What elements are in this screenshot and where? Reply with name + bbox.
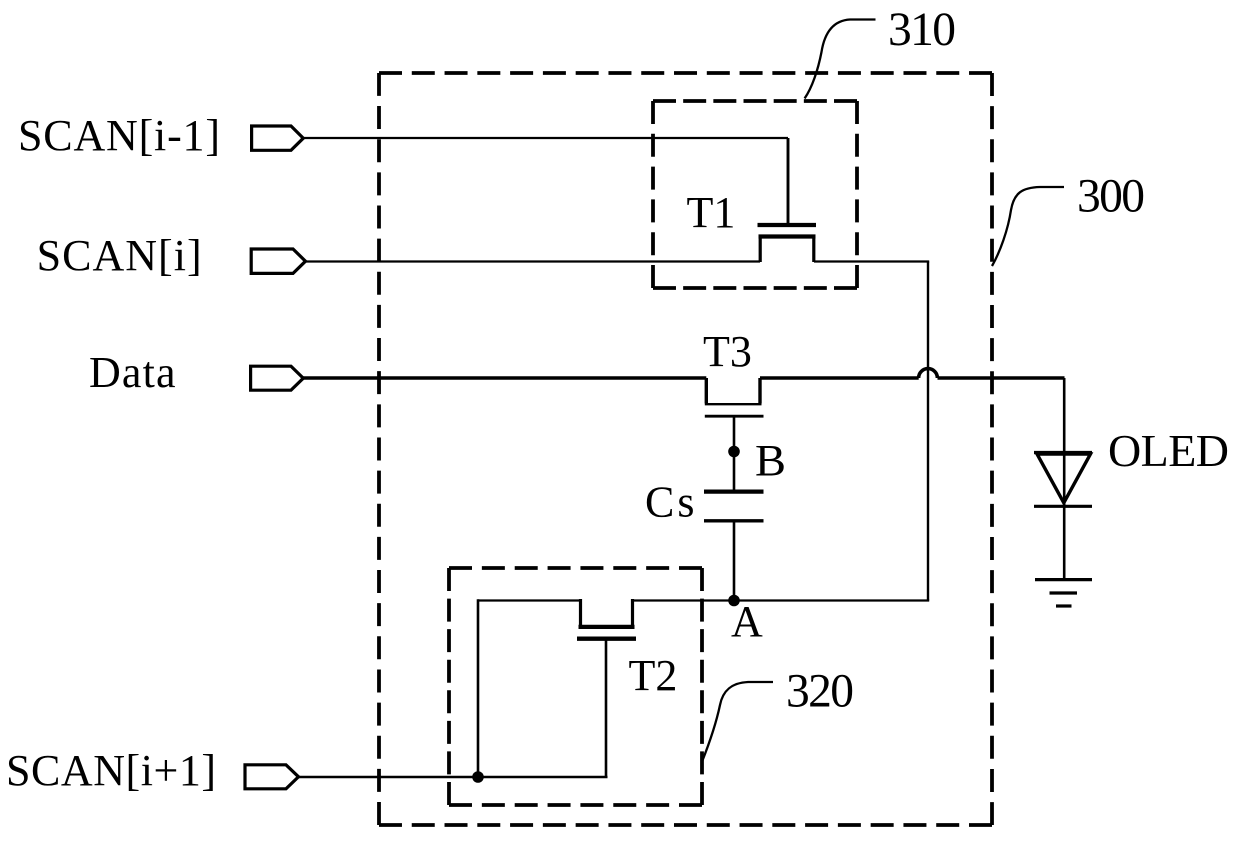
svg-text:SCAN[i]: SCAN[i]: [37, 231, 202, 280]
svg-text:300: 300: [1077, 170, 1145, 222]
svg-text:T2: T2: [629, 651, 678, 700]
svg-text:Cs: Cs: [645, 478, 695, 527]
svg-text:T1: T1: [687, 188, 736, 237]
svg-text:OLED: OLED: [1108, 425, 1229, 476]
svg-text:SCAN[i+1]: SCAN[i+1]: [6, 746, 216, 795]
svg-text:320: 320: [786, 666, 854, 718]
svg-text:SCAN[i-1]: SCAN[i-1]: [18, 111, 220, 160]
svg-text:T3: T3: [703, 327, 752, 376]
svg-text:A: A: [731, 597, 763, 646]
svg-text:Data: Data: [89, 348, 176, 397]
svg-text:B: B: [755, 436, 786, 485]
svg-text:310: 310: [888, 4, 956, 56]
